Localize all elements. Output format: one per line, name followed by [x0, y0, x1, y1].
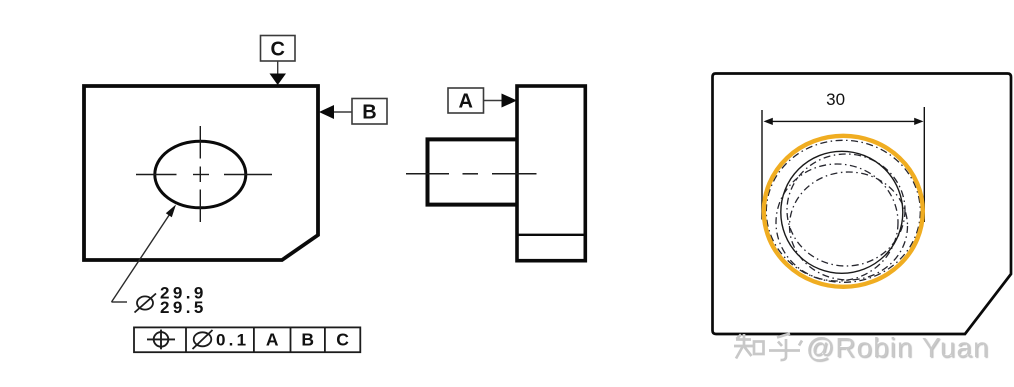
- virtual condition dash-dot circle (outer): [766, 140, 920, 282]
- hole vertical centerline: [199, 126, 201, 222]
- datum B symbol (filled triangle on right edge, leader, box): [319, 99, 387, 125]
- boss (cylinder) outline: [428, 139, 518, 204]
- watermark 知 glyph (simplified strokes): [734, 334, 764, 359]
- left extension line: [761, 110, 763, 220]
- hole horizontal centerline: [136, 174, 272, 176]
- boss dashed centerline: [406, 173, 537, 175]
- datum C symbol (box, stem, filled triangle on top edge): [261, 36, 296, 86]
- svg-text:A: A: [266, 329, 279, 349]
- svg-text:@Robin Yuan: @Robin Yuan: [806, 332, 990, 363]
- diameter symbol of size note: [135, 294, 157, 313]
- svg-text:30: 30: [826, 90, 845, 109]
- feature control frame cell dividers: [186, 327, 325, 352]
- svg-text:B: B: [301, 329, 314, 349]
- tolerance value Ø0.1: [193, 330, 213, 349]
- feature control frame outline: [134, 327, 360, 352]
- panel outline (rounded rect with chamfered lower-right corner): [713, 74, 1012, 335]
- svg-text:A: A: [458, 91, 472, 113]
- dimension line with arrowheads: [764, 118, 924, 125]
- actual hole thin solid circle: [781, 151, 903, 273]
- dash-dot hole position circle lower-right: [790, 172, 908, 280]
- watermark 乎 glyph (simplified strokes): [769, 334, 802, 361]
- svg-text:29.5: 29.5: [160, 298, 207, 317]
- part outline front view (rect with chamfered lower-right corner): [84, 86, 318, 260]
- datum A symbol (box, leader, filled triangle on left face): [448, 88, 517, 113]
- svg-text:C: C: [336, 329, 349, 349]
- side view plate outline: [517, 86, 585, 261]
- svg-text:0.1: 0.1: [216, 331, 249, 350]
- gauge boundary orange circle: [764, 136, 923, 287]
- svg-text:C: C: [270, 39, 284, 61]
- chamfer edge line in side view: [517, 234, 585, 236]
- dash-dot hole position circle upper: [787, 154, 905, 266]
- svg-text:B: B: [362, 102, 376, 124]
- hole Ø29.9/29.5 (ellipse): [155, 141, 246, 208]
- leader arrow from size note to hole: [112, 205, 177, 303]
- dash-dot hole position circle lower-left: [776, 164, 898, 281]
- right extension line: [923, 107, 925, 222]
- position tolerance symbol: [147, 330, 175, 350]
